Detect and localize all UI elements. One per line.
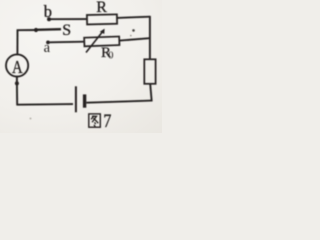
node a contact [46,41,50,45]
wire top-left vertical (ammeter to corner) [16,30,18,54]
battery negative plate (short thick) [83,94,86,107]
caption glyph 图 (drawn) [89,114,101,127]
svg-text:a: a [44,40,51,56]
resistor R [87,14,117,24]
wire a to rheostat [50,41,85,44]
noise speck faint [30,118,32,120]
wire bottom right (corner to battery) [86,101,152,103]
svg-text:7: 7 [103,110,111,132]
battery positive plate (long) [75,86,77,112]
wire left vertical (corner up to ammeter) [16,83,18,105]
svg-text:b: b [44,2,52,21]
rheostat R0 arrow [86,31,103,52]
paper background [0,0,162,133]
node switch pole junction [34,28,38,32]
svg-text:0: 0 [108,50,113,61]
noise speck [132,29,135,32]
paper shading [0,0,162,133]
noise speck faint 2 [130,35,132,37]
wire bottom left (battery to corner) [17,103,73,106]
wire rheostat to right vertical [119,38,149,40]
node below ammeter [15,81,19,85]
wire b to resistor R [51,18,87,20]
svg-text:R: R [96,0,107,16]
node b contact [47,17,51,21]
wire top-left horizontal (corner to switch pole) [17,29,36,31]
switch S blade [37,28,62,31]
svg-text:S: S [62,22,71,39]
resistor R2 right vertical [144,59,155,84]
rheostat R0 body [84,36,119,46]
wire right vertical upper [149,16,151,59]
ammeter A [6,54,28,76]
wire node to ammeter bottom [16,77,18,84]
wire right vertical lower [150,84,152,102]
svg-text:A: A [12,57,23,78]
wire resistor R to right corner [117,17,150,18]
